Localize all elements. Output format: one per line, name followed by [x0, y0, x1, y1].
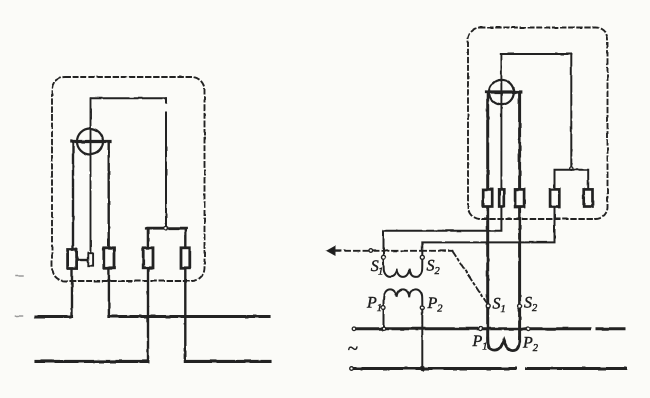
svg-text:P1: P1: [366, 295, 382, 315]
svg-text:P2: P2: [522, 335, 539, 355]
svg-text:P2: P2: [427, 295, 444, 315]
svg-text:S2: S2: [524, 295, 538, 315]
svg-text:~: ~: [348, 339, 358, 360]
svg-text:P1: P1: [472, 333, 488, 353]
svg-text:S2: S2: [427, 258, 441, 278]
svg-text:S1: S1: [371, 258, 383, 278]
svg-text:S1: S1: [493, 296, 506, 316]
